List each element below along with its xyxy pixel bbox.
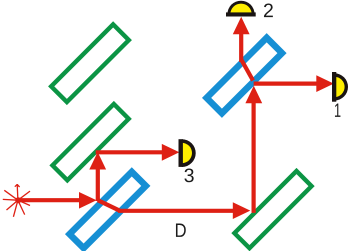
wire: beam source to BS1 xyxy=(18,192,97,209)
label D xyxy=(176,223,186,236)
detector 1 (right, dome right) xyxy=(332,72,348,102)
mirror M2 (middle-left green) xyxy=(52,104,128,180)
mirror M1 (top-left green) xyxy=(51,24,129,102)
beam splitter BS1 (bottom-left blue) xyxy=(70,172,146,248)
wire: beam up to detector 2 xyxy=(233,17,250,62)
detector 3 (dome right) xyxy=(179,139,196,167)
wire: beam right to detector 3 xyxy=(96,144,180,161)
label 3 xyxy=(184,168,193,182)
source star xyxy=(3,184,30,217)
wire: beam M3 up to BS2 xyxy=(245,86,262,213)
wire: beam BS1 up to mirror M2 junction xyxy=(89,152,106,201)
beam splitter BS2 (top-right blue) xyxy=(207,38,282,113)
label 2 xyxy=(264,3,273,17)
label 1 xyxy=(335,103,340,116)
wire: bottom beam D-path to mirror M3 xyxy=(118,202,250,219)
wire: beam BS2 right to detector 1 xyxy=(254,75,334,92)
wire: refraction kink inside BS2 xyxy=(241,60,253,81)
mirror M3 (bottom-right green) xyxy=(234,171,311,248)
wire: refraction kink inside BS1 xyxy=(98,200,120,211)
detector 2 (top, dome up) xyxy=(226,1,256,17)
